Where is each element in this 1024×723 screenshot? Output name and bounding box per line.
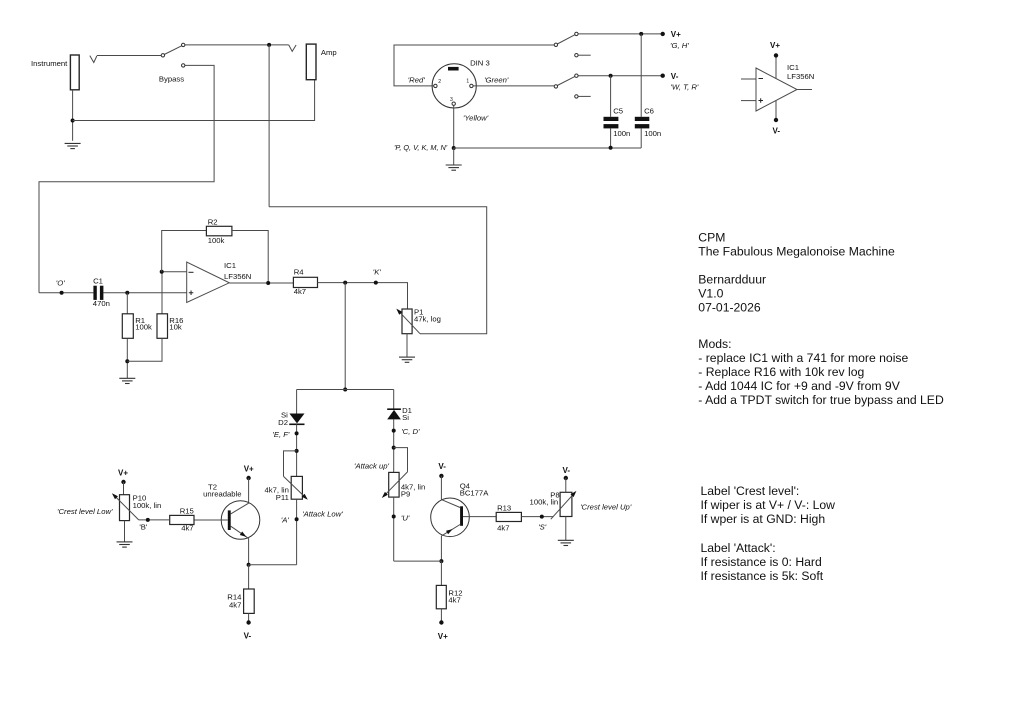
- svg-text:'Yellow': 'Yellow': [463, 113, 489, 122]
- svg-text:Label 'Crest level':: Label 'Crest level':: [701, 484, 800, 498]
- svg-text:'U': 'U': [401, 514, 410, 523]
- svg-text:100n: 100n: [644, 129, 661, 138]
- svg-text:'Crest level Up': 'Crest level Up': [580, 502, 632, 511]
- svg-text:'K': 'K': [373, 268, 382, 277]
- svg-text:V+: V+: [671, 30, 681, 39]
- svg-text:V+: V+: [770, 41, 780, 50]
- svg-text:470n: 470n: [93, 299, 110, 308]
- svg-text:4k7: 4k7: [294, 287, 306, 296]
- svg-text:100k, lin: 100k, lin: [530, 497, 559, 506]
- svg-text:'Attack Low': 'Attack Low': [302, 510, 343, 519]
- svg-text:- Replace R16 with 10k rev log: - Replace R16 with 10k rev log: [698, 365, 864, 379]
- svg-text:4k7: 4k7: [181, 524, 193, 533]
- svg-text:'Red': 'Red': [408, 75, 426, 84]
- svg-text:R15: R15: [180, 507, 194, 516]
- svg-text:2: 2: [438, 79, 441, 85]
- svg-text:Bypass: Bypass: [159, 75, 184, 84]
- svg-text:'P, Q, V, K, M, N': 'P, Q, V, K, M, N': [394, 143, 448, 152]
- svg-text:CPM: CPM: [698, 230, 725, 244]
- svg-text:- replace IC1 with a 741 for m: - replace IC1 with a 741 for more noise: [698, 351, 908, 365]
- svg-text:P11: P11: [276, 493, 289, 502]
- svg-text:The Fabulous Megalonoise Machi: The Fabulous Megalonoise Machine: [698, 244, 895, 258]
- svg-text:07-01-2026: 07-01-2026: [698, 301, 761, 315]
- svg-text:C5: C5: [613, 106, 623, 115]
- svg-text:If wper is at GND: High: If wper is at GND: High: [701, 512, 826, 526]
- svg-text:LF356N: LF356N: [224, 272, 251, 281]
- svg-text:R4: R4: [294, 268, 305, 277]
- svg-text:If resistance is 5k: Soft: If resistance is 5k: Soft: [701, 569, 824, 583]
- svg-text:'E, F': 'E, F': [272, 430, 290, 439]
- svg-text:V-: V-: [563, 466, 571, 475]
- svg-text:If wiper is at V+ / V-: Low: If wiper is at V+ / V-: Low: [701, 498, 836, 512]
- svg-text:C6: C6: [644, 106, 654, 115]
- svg-text:R2: R2: [208, 218, 218, 227]
- svg-text:R13: R13: [497, 504, 511, 513]
- svg-text:'B': 'B': [139, 523, 148, 532]
- svg-text:DIN 3: DIN 3: [470, 58, 490, 67]
- svg-text:Si: Si: [402, 413, 409, 422]
- svg-text:'Attack up': 'Attack up': [354, 462, 390, 471]
- svg-text:unreadable: unreadable: [203, 489, 241, 498]
- svg-text:C1: C1: [93, 277, 103, 286]
- svg-text:LF356N: LF356N: [787, 72, 814, 81]
- svg-text:47k, log: 47k, log: [414, 315, 441, 324]
- svg-text:D2: D2: [278, 418, 288, 427]
- svg-text:BC177A: BC177A: [460, 488, 490, 497]
- svg-text:P9: P9: [401, 490, 410, 499]
- svg-text:'C, D': 'C, D': [401, 427, 420, 436]
- svg-text:IC1: IC1: [224, 261, 236, 270]
- svg-text:V1.0: V1.0: [698, 287, 723, 301]
- svg-text:10k: 10k: [169, 323, 182, 332]
- svg-text:V+: V+: [438, 632, 448, 641]
- svg-text:V-: V-: [244, 631, 252, 640]
- svg-text:Label 'Attack':: Label 'Attack':: [701, 541, 776, 555]
- svg-text:'O': 'O': [56, 279, 65, 288]
- svg-text:100n: 100n: [613, 129, 630, 138]
- svg-text:V-: V-: [773, 127, 781, 136]
- svg-text:V-: V-: [671, 72, 679, 81]
- svg-text:100k: 100k: [208, 236, 225, 245]
- svg-text:Instrument: Instrument: [31, 59, 68, 68]
- svg-text:'Green': 'Green': [484, 75, 509, 84]
- svg-text:V+: V+: [244, 465, 254, 474]
- svg-text:V+: V+: [118, 469, 128, 478]
- svg-text:Bernardduur: Bernardduur: [698, 273, 766, 287]
- svg-text:4k7: 4k7: [448, 596, 460, 605]
- svg-text:Amp: Amp: [321, 48, 337, 57]
- svg-text:IC1: IC1: [787, 63, 799, 72]
- svg-text:100k: 100k: [135, 323, 152, 332]
- svg-text:If resistance is 0: Hard: If resistance is 0: Hard: [701, 555, 822, 569]
- svg-text:Mods:: Mods:: [698, 337, 731, 351]
- svg-text:4k7: 4k7: [497, 524, 509, 533]
- svg-text:1: 1: [466, 79, 469, 85]
- svg-text:4k7: 4k7: [229, 600, 241, 609]
- svg-text:3: 3: [450, 97, 453, 103]
- svg-text:'S': 'S': [538, 522, 547, 531]
- svg-text:V-: V-: [438, 462, 446, 471]
- svg-text:'A': 'A': [281, 516, 290, 525]
- svg-text:'Crest level Low': 'Crest level Low': [57, 507, 113, 516]
- svg-text:'G, H': 'G, H': [670, 41, 689, 50]
- svg-text:- Add 1044 IC for +9 and -9V f: - Add 1044 IC for +9 and -9V from 9V: [698, 379, 900, 393]
- svg-text:- Add a TPDT switch for true b: - Add a TPDT switch for true bypass and …: [698, 393, 944, 407]
- svg-text:'W, T, R': 'W, T, R': [670, 82, 699, 91]
- svg-text:100k, lin: 100k, lin: [133, 501, 162, 510]
